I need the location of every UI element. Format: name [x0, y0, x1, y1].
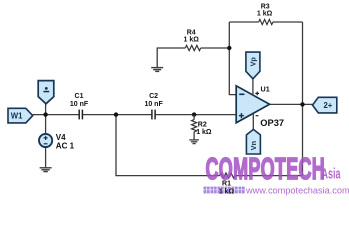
svg-text:www.compotechasia.com: www.compotechasia.com [245, 185, 349, 195]
svg-text:R2: R2 [198, 122, 207, 129]
capacitor C2 [152, 110, 155, 120]
svg-text:Vp: Vp [249, 57, 258, 67]
svg-text:R1: R1 [222, 181, 231, 188]
svg-text:AC 1: AC 1 [56, 141, 75, 150]
node C junction [192, 112, 196, 116]
node D junction [227, 46, 231, 50]
inverting input mark [239, 93, 244, 95]
wire R1 right lead to right vertical [235, 175, 303, 177]
svg-text:10 nF: 10 nF [144, 101, 163, 108]
wire output [270, 103, 313, 105]
wire Vn stem [252, 113, 254, 130]
svg-text:W1: W1 [11, 111, 23, 120]
wire C1 to C2 [82, 114, 152, 116]
capacitor C1 [79, 110, 82, 120]
svg-text:U1: U1 [261, 84, 270, 93]
svg-text:R4: R4 [187, 30, 196, 37]
svg-text:1 kΩ: 1 kΩ [219, 189, 235, 196]
wire R4 left lead and ground stem [157, 48, 185, 67]
wire top feedback left segment [229, 21, 258, 23]
svg-text:C2: C2 [149, 93, 158, 100]
ground G2 (left of R4) [151, 68, 163, 72]
scope probe 1+ pentagon [38, 81, 54, 104]
resistor R2 [193, 115, 195, 120]
watermark chinese tagline [204, 187, 245, 194]
svg-text:2+: 2+ [323, 101, 332, 110]
wire right vertical (output feedback) [302, 22, 304, 176]
svg-text:C1: C1 [75, 93, 84, 100]
svg-text:Vn: Vn [249, 141, 258, 150]
supply minus mark [256, 115, 259, 117]
source tag W1 [8, 108, 33, 123]
ground G1 (below V4) [40, 168, 52, 172]
output tag 2+ [313, 97, 337, 113]
wire top feedback right segment [273, 21, 303, 23]
node E output junction [300, 102, 304, 106]
op-amp U1 [236, 86, 269, 123]
node B junction [114, 112, 118, 116]
wire V4 to ground [45, 147, 47, 167]
wire bottom feedback: node B down and right to R1 [116, 115, 220, 176]
supply pin Vn pentagon [246, 129, 260, 154]
probe icon [45, 87, 48, 90]
svg-text:1 kΩ: 1 kΩ [184, 37, 200, 44]
svg-text:OP37: OP37 [260, 118, 284, 128]
wire Vp stem [252, 79, 254, 96]
supply plus mark [255, 92, 259, 96]
wire W1 to C1 (input net) [33, 114, 79, 116]
node A junction [43, 112, 47, 116]
svg-text:10 nF: 10 nF [70, 101, 89, 108]
wire node A to V4 [45, 115, 47, 134]
wire R4 right lead to node D [201, 47, 230, 49]
wire node D vertical to inverting input [229, 22, 236, 95]
wire probe stem [45, 104, 47, 115]
resistor R1 [220, 173, 235, 178]
watermark COMPOTECH [206, 152, 326, 186]
svg-text:1 kΩ: 1 kΩ [196, 129, 212, 136]
ground G3 (below R2) [189, 140, 199, 144]
resistor R3 [259, 19, 273, 24]
non-inverting input mark [239, 113, 244, 118]
source V4 [39, 134, 52, 147]
wire C2 to op-amp + input [155, 114, 236, 116]
svg-text:1 kΩ: 1 kΩ [257, 10, 273, 17]
supply pin Vp pentagon [246, 52, 260, 79]
svg-text:Asia: Asia [322, 165, 341, 182]
resistor R4 [185, 45, 200, 50]
